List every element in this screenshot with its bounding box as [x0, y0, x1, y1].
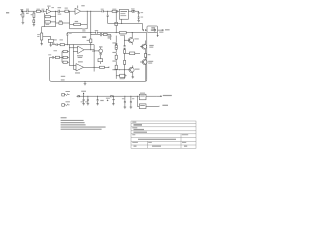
power jack J2 [62, 91, 70, 96]
resistor R9 [56, 20, 70, 24]
wire: input net y=11.2 [22, 10, 46, 12]
capacitor C10 [100, 33, 101, 37]
resistor R21 [115, 45, 117, 49]
resistor R7 [70, 23, 88, 25]
capacitor C12 [48, 54, 55, 58]
ground [96, 104, 99, 106]
feedback loop stage2 [70, 11, 88, 29]
node [69, 11, 70, 12]
resistor R2 [31, 11, 35, 24]
resistor R22 [115, 55, 117, 59]
label R10 [87, 40, 90, 41]
resistor R3 [36, 9, 40, 13]
resistor R14 [63, 56, 69, 58]
bias resistor R31 [125, 52, 140, 55]
capacitor C19 [122, 96, 126, 107]
resistor R20 [115, 22, 118, 25]
capacitor C7 [95, 30, 98, 34]
transistor Q2 [140, 44, 147, 49]
wire [131, 33, 133, 45]
notes text block [61, 117, 106, 130]
label [108, 36, 112, 39]
IC U3 [119, 9, 128, 19]
wire [145, 64, 147, 81]
net arrow [107, 66, 109, 69]
feedback wire from output (long) [50, 33, 147, 82]
wire: mid bus y=44.7 [52, 44, 94, 46]
label [75, 21, 78, 22]
power jack J3 [62, 101, 70, 106]
capacitor C6 [101, 9, 104, 13]
resistor R29 [98, 59, 103, 64]
ground [87, 104, 90, 106]
node [67, 44, 68, 45]
label Q5 [149, 45, 153, 48]
node [132, 32, 133, 33]
headphone box [147, 26, 158, 32]
wire [132, 65, 134, 77]
wire: supply bus y=32.6 [67, 32, 147, 34]
ground [40, 44, 43, 46]
wire: aux net y=23.5 [108, 19, 143, 30]
label [54, 49, 58, 52]
wire: U1B output [81, 10, 101, 12]
label R17 [92, 51, 95, 52]
title block frame [131, 121, 196, 148]
wire: bus x=90.8 down [90, 11, 92, 50]
capacitor C15 stack [138, 11, 143, 20]
wire: U2B out to driver [94, 66, 107, 68]
resistor R8 [65, 8, 69, 13]
op-amp U1B [75, 5, 85, 14]
rail x=94.1 [93, 45, 95, 72]
label R28 [60, 39, 63, 40]
resistor R10 [90, 39, 92, 43]
wire: rails into U2 [69, 45, 77, 70]
label Q6 [148, 61, 153, 64]
capacitor C21 [56, 44, 57, 46]
potentiometer VR1 [37, 33, 44, 44]
capacitor C2 [42, 9, 45, 13]
diode D3 [111, 95, 113, 97]
resistor R23 [115, 65, 117, 69]
transistor Q7 [94, 46, 103, 53]
wire: U2B output [84, 66, 95, 68]
resistor R26 [116, 74, 126, 79]
wire to volume pot [41, 27, 43, 33]
label U2 [77, 55, 83, 62]
label [61, 72, 80, 80]
net label IN [6, 12, 9, 13]
-15V net label [158, 105, 169, 107]
wire [68, 10, 75, 12]
label [52, 43, 55, 44]
ground [82, 104, 85, 106]
wire: main into U3 area [101, 10, 139, 12]
ground [22, 22, 25, 24]
resistor R1 [20, 11, 24, 22]
wire: drive bus y=34.5 [91, 35, 111, 41]
resistor R16 [55, 56, 63, 58]
net arrow PHONES [158, 29, 170, 30]
transistor Q4 [140, 60, 147, 65]
node [107, 11, 108, 12]
wire: U1A output [51, 10, 65, 12]
label C21 [54, 39, 57, 40]
op-amp U2A [78, 44, 84, 54]
resistor bank R13 [62, 50, 69, 62]
title block text [132, 122, 188, 147]
capacitor C17 [83, 96, 85, 104]
wire to regulator U5 [137, 96, 157, 106]
resistor R11 [103, 33, 107, 35]
diode D1 [77, 95, 80, 97]
wire: U2B drive to Q3 base [114, 69, 124, 71]
resistor R15 [62, 61, 69, 63]
ground [124, 107, 127, 109]
regulator U4 [139, 93, 146, 100]
capacitor C14 [107, 11, 109, 23]
resistor R4 [45, 16, 56, 18]
node [87, 11, 88, 12]
ground [137, 20, 140, 22]
plus mark [107, 100, 109, 102]
input terminal J1 [20, 9, 23, 12]
wire: U2A output [84, 49, 94, 51]
wiper resistor R5 [44, 37, 53, 46]
op-amp U2B [76, 64, 84, 71]
capacitor C24 on rail2 [124, 46, 126, 49]
ground [132, 77, 135, 79]
ground [130, 107, 133, 109]
wire into box [143, 29, 148, 31]
ground [112, 104, 115, 106]
ground [33, 25, 36, 27]
ground on bottom wire [84, 81, 87, 85]
node [22, 11, 23, 12]
label C17 value [81, 100, 83, 103]
transistor Q3 [125, 67, 140, 72]
capacitor C18 [87, 96, 89, 104]
emitter resistor R30 [144, 54, 150, 60]
rail 1 x=116.2 [115, 11, 117, 79]
node [90, 32, 91, 33]
resistor R18 [100, 66, 105, 68]
capacitor C22 [100, 54, 102, 59]
capacitor C20 [130, 96, 134, 107]
wire: power rail y=96.2 [80, 95, 157, 97]
label C18 value [85, 100, 87, 103]
label D3 [112, 99, 115, 100]
labels [112, 42, 116, 70]
+15V net label [157, 95, 172, 97]
resistor R12 [119, 32, 126, 36]
resistor R19 [112, 9, 117, 13]
net arrow +40V down [157, 32, 158, 36]
wire [144, 41, 146, 54]
resistor R25 [124, 60, 126, 64]
ground [49, 45, 52, 47]
op-amp U1A [46, 6, 54, 14]
polarized capacitor C8 [66, 33, 71, 45]
feedback loop stage1 [42, 11, 56, 26]
resistor R24 [124, 50, 126, 54]
node [55, 11, 56, 12]
trimmer on rail1 [115, 43, 117, 45]
wire drop to ground [113, 96, 114, 104]
label C? [82, 36, 86, 37]
label D2 [106, 98, 110, 99]
resistor R28 [60, 44, 64, 46]
label +40V [159, 32, 163, 33]
rail 2 x=124.6 [124, 36, 126, 79]
lamp LA1 [131, 9, 135, 13]
capacitor C3 [45, 21, 56, 25]
net arrow +40V [81, 91, 86, 97]
capacitor C4 [58, 7, 62, 14]
transistor Q1 [125, 38, 139, 43]
capacitor C23 [97, 96, 104, 104]
regulator U5 [139, 104, 146, 109]
capacitor C1 [26, 9, 29, 14]
